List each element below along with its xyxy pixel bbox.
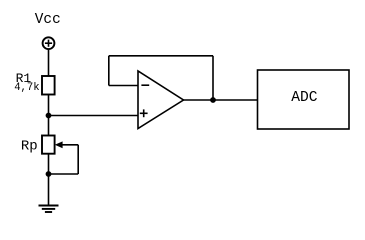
wire node A to op-amp + input — [49, 115, 139, 117]
op-amp U1 — [138, 71, 184, 129]
node A junction dot — [46, 113, 52, 119]
wire feedback right vertical — [212, 56, 214, 100]
node C output junction dot — [210, 97, 216, 103]
wire op-amp output to ADC — [184, 99, 258, 101]
op-amp minus sign — [141, 84, 149, 86]
wire feedback top — [109, 55, 213, 57]
wire R1 to Rp (through node A) — [48, 95, 50, 136]
supply terminal (+) — [43, 37, 55, 49]
svg-text:Rp: Rp — [21, 138, 38, 154]
wiper arrow — [55, 141, 78, 148]
wire feedback left vertical — [108, 56, 110, 86]
potentiometer Rp body — [42, 136, 55, 154]
wire Vcc to R1 — [48, 49, 50, 76]
ground — [39, 206, 59, 213]
node B junction dot — [46, 171, 52, 177]
svg-text:ADC: ADC — [291, 90, 318, 106]
ADC block — [258, 70, 350, 129]
resistor R1 — [42, 76, 55, 95]
op-amp plus sign — [140, 109, 148, 117]
svg-text:Vcc: Vcc — [35, 12, 61, 28]
wire Rp bottom to ground — [48, 154, 50, 206]
wire wiper loop down — [77, 145, 79, 174]
svg-text:4,7k: 4,7k — [14, 82, 39, 94]
wire feedback to - input — [109, 85, 138, 87]
wire wiper loop to node B — [49, 173, 79, 175]
